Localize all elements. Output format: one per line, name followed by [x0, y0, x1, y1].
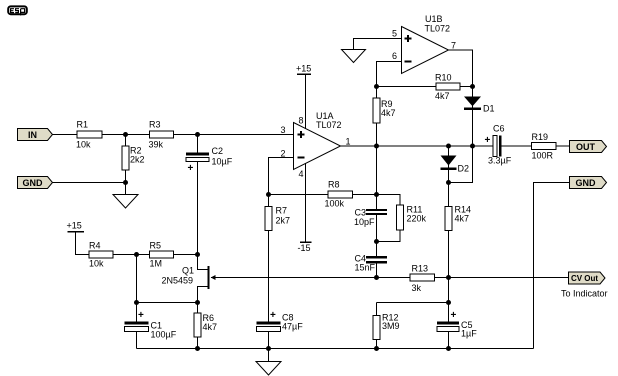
node link/C5 junction	[446, 300, 451, 305]
svg-text:4k7: 4k7	[381, 108, 396, 118]
node R10/D1 junction	[470, 84, 475, 89]
node output/R9 junction	[374, 144, 379, 149]
capacitor C5	[437, 310, 477, 339]
wire C5 column lower	[448, 332, 450, 349]
wire R7/C8 column	[268, 195, 270, 324]
tag CV Out	[569, 272, 606, 284]
ground symbol below R2	[113, 195, 138, 209]
wire R12 column	[376, 303, 378, 349]
svg-text:R1: R1	[77, 120, 89, 130]
capacitor C2	[186, 146, 233, 174]
svg-text:+15: +15	[67, 221, 82, 231]
node rail/C5 junction	[446, 346, 451, 351]
svg-text:4k7: 4k7	[455, 214, 470, 224]
svg-text:+15: +15	[296, 64, 311, 74]
node rail/C8 junction	[266, 346, 271, 351]
node R7/R8 junction	[266, 192, 271, 197]
node C1/link junction	[134, 300, 139, 305]
node R13/R14 junction	[446, 275, 451, 280]
resistor R2	[122, 146, 145, 171]
svg-text:6: 6	[392, 51, 397, 61]
node C3/C4/R11 junction	[374, 239, 379, 244]
wire +15 rail to R4/R5	[76, 232, 198, 255]
svg-text:4k7: 4k7	[203, 322, 218, 332]
svg-text:3k: 3k	[412, 283, 422, 293]
ground symbol at U1B pin 5	[342, 50, 366, 63]
svg-text:1M: 1M	[150, 259, 163, 269]
wire R12-C5 link	[377, 302, 449, 304]
svg-text:D1: D1	[483, 104, 495, 114]
svg-text:D2: D2	[458, 164, 470, 174]
svg-text:10k: 10k	[89, 259, 104, 269]
svg-text:R5: R5	[150, 241, 162, 251]
wire C2 column lower	[197, 161, 199, 255]
ESP logo	[8, 6, 27, 15]
svg-text:GND: GND	[23, 178, 44, 188]
resistor R1	[76, 120, 102, 150]
wire GND left	[53, 182, 126, 184]
tag OUT	[570, 141, 607, 153]
svg-text:220k: 220k	[407, 214, 427, 224]
svg-text:5: 5	[392, 29, 397, 39]
wire C6 to OUT	[501, 145, 570, 147]
svg-text:1µF: 1µF	[461, 329, 477, 339]
svg-text:100R: 100R	[532, 151, 554, 161]
node C4/R13 junction	[374, 275, 379, 280]
svg-text:Q1: Q1	[182, 266, 194, 276]
svg-text:R13: R13	[412, 264, 429, 274]
svg-text:2k7: 2k7	[276, 216, 291, 226]
node R2/GND junction	[123, 180, 128, 185]
wire C4 to CV line segment	[376, 263, 378, 278]
svg-text:15nF: 15nF	[355, 263, 376, 273]
svg-text:4k7: 4k7	[435, 91, 450, 101]
resistor R12	[373, 313, 400, 340]
svg-text:R19: R19	[532, 132, 549, 142]
node R4/R5/C1 junction	[134, 252, 139, 257]
node rail/R6 junction	[195, 346, 200, 351]
svg-text:R8: R8	[328, 180, 340, 190]
wire U1A pin 2	[269, 158, 294, 195]
resistor R11	[397, 205, 427, 231]
power +15 at U1A pin 8	[296, 64, 311, 130]
op-amp U1B	[392, 14, 456, 74]
svg-text:TL072: TL072	[316, 120, 342, 130]
wire U1B pin 6 feedback	[377, 62, 402, 87]
capacitor C1	[125, 310, 177, 340]
resistor R7	[265, 206, 290, 231]
svg-text:7: 7	[451, 41, 456, 51]
svg-text:U1B: U1B	[425, 14, 443, 24]
svg-text:+: +	[485, 135, 491, 146]
svg-text:-15: -15	[298, 243, 311, 253]
svg-text:R7: R7	[276, 206, 288, 216]
wire C3 to C4 segment	[376, 215, 378, 257]
svg-text:3M9: 3M9	[382, 321, 400, 331]
svg-text:R10: R10	[435, 73, 452, 83]
wire Q1 drain lead	[198, 255, 209, 270]
svg-text:2k2: 2k2	[130, 155, 145, 165]
svg-text:8: 8	[298, 116, 303, 126]
svg-text:+: +	[451, 310, 457, 321]
capacitor C4	[355, 254, 388, 273]
wire C1 column lower	[136, 332, 138, 349]
tag IN	[18, 129, 53, 141]
svg-text:100k: 100k	[325, 199, 345, 209]
svg-text:1: 1	[346, 137, 351, 147]
node Q1 source/R6 junction	[195, 300, 200, 305]
wire R11 bottom branch	[377, 230, 401, 242]
capacitor C8	[257, 310, 304, 332]
svg-text:39k: 39k	[149, 140, 164, 150]
resistor R5	[150, 241, 174, 269]
resistor R14	[445, 205, 471, 231]
svg-text:To Indicator: To Indicator	[561, 289, 608, 299]
svg-text:GND: GND	[576, 178, 597, 188]
wire D1 to D2 cathode link	[449, 146, 473, 183]
wire D2/R14 column	[448, 146, 450, 278]
wire bottom ground rail	[137, 348, 534, 350]
svg-text:C3: C3	[355, 208, 367, 218]
wire R9/C3/C4 column	[376, 87, 378, 210]
op-amp U1A	[280, 111, 350, 179]
svg-text:10µF: 10µF	[212, 157, 233, 167]
node output/D1 junction	[470, 144, 475, 149]
svg-text:+: +	[138, 310, 144, 321]
svg-text:47µF: 47µF	[282, 322, 303, 332]
node output/D2 junction	[446, 144, 451, 149]
svg-text:3: 3	[280, 125, 285, 135]
wire IN to U1A pin 3 (main input line)	[53, 134, 294, 136]
capacitor C6	[485, 124, 512, 166]
resistor R6	[194, 313, 217, 337]
node D2/R14 junction	[446, 180, 451, 185]
svg-text:R4: R4	[89, 241, 101, 251]
svg-text:4: 4	[299, 169, 304, 179]
svg-text:C6: C6	[493, 124, 505, 134]
resistor R19	[532, 132, 557, 161]
svg-text:100µF: 100µF	[151, 330, 177, 340]
node R8/C3 junction	[374, 192, 379, 197]
resistor R9	[373, 98, 396, 123]
svg-text:C2: C2	[212, 146, 224, 156]
node rail/R12 junction	[374, 346, 379, 351]
resistor R8	[325, 180, 353, 209]
svg-text:IN: IN	[28, 130, 37, 140]
wire C1 column upper	[136, 255, 138, 324]
wire C2 column upper	[197, 135, 199, 155]
resistor R10	[435, 73, 460, 102]
svg-text:2: 2	[280, 149, 285, 159]
node R3/C2 junction	[195, 132, 200, 137]
wire feedback line R10	[377, 86, 473, 88]
wire C8 bottom lead	[268, 332, 270, 349]
svg-text:10k: 10k	[76, 140, 91, 150]
resistor R3	[149, 120, 174, 150]
wire C1-R6 link	[137, 302, 198, 304]
svg-text:TL072: TL072	[425, 24, 451, 34]
wire R2 column	[125, 135, 127, 195]
diode D1	[464, 97, 495, 114]
tag GND right	[570, 177, 607, 189]
resistor R4	[89, 241, 113, 269]
wire CV line	[211, 277, 569, 279]
svg-text:2N5459: 2N5459	[162, 276, 194, 286]
capacitor C3	[354, 208, 387, 228]
svg-text:R3: R3	[149, 120, 161, 130]
power +15 at R4	[67, 221, 85, 232]
wire GND right	[534, 183, 570, 349]
wire U1B output down through D1	[449, 50, 473, 146]
resistor R13	[410, 264, 435, 294]
wire Q1 source lead / R6 column	[198, 287, 209, 349]
node R1/R2/R3 junction	[123, 132, 128, 137]
diode D2	[441, 156, 470, 174]
svg-text:OUT: OUT	[576, 142, 596, 152]
wire R8 line pin2 node to C3 node	[269, 194, 377, 196]
svg-text:+: +	[270, 310, 276, 321]
tag GND left	[18, 177, 53, 189]
wire C5 column upper	[448, 278, 450, 324]
svg-text:+: +	[188, 163, 194, 174]
ground symbol bottom rail	[256, 349, 281, 376]
node R5/C2/Q1 junction	[195, 252, 200, 257]
svg-text:10pF: 10pF	[354, 217, 375, 227]
wire U1B pin 5	[354, 39, 402, 50]
wire R11 top branch	[377, 195, 401, 206]
transistor Q1 (JFET 2N5459)	[162, 266, 216, 290]
svg-text:CV Out: CV Out	[571, 274, 598, 283]
power -15 at U1A pin 4	[298, 163, 312, 253]
node feedback/R9 junction	[374, 84, 379, 89]
svg-text:3.3µF: 3.3µF	[488, 156, 512, 166]
wire U1A output line	[341, 145, 495, 147]
